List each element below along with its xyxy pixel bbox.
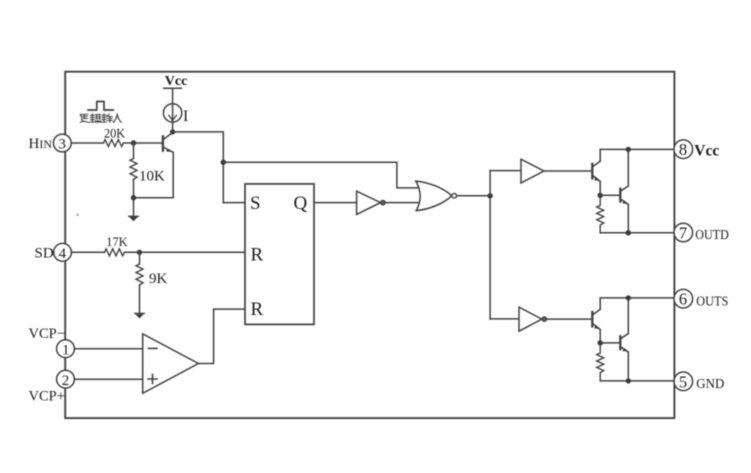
svg-text:OUTS: OUTS [696,294,728,309]
svg-text:HIN: HIN [29,136,53,152]
label Vcc pin8 [694,143,719,160]
svg-text:7: 7 [679,224,687,243]
transistor Q3 (high side darlington) [620,186,628,204]
label HIN [29,136,53,152]
resistor R3 (high side) [597,195,604,233]
wire to top buffer [490,170,521,172]
label 17K [106,235,127,249]
svg-text:GND: GND [696,377,724,392]
current source I1 [163,104,181,122]
wire Q output to inverter [314,202,357,204]
node darlington base junction low [598,340,603,345]
svg-text:R: R [251,299,264,320]
wire current source to collector node [172,122,174,132]
svg-text:5: 5 [679,372,687,391]
wire bottom rail OUTD [600,232,674,234]
inverter U3 [357,191,385,214]
svg-text:8: 8 [679,140,687,159]
resistor 17K [105,249,125,256]
wire pin1 to comparator - input [74,348,142,350]
node distribution junction [487,193,492,198]
wire node to ground [133,198,135,216]
ground (arrow) [129,216,139,221]
svg-text:10K: 10K [139,169,165,185]
label VCP- [29,326,65,342]
wire 20K to base node [124,142,134,144]
label 9K [149,271,168,287]
pin 3 HIN [53,134,71,153]
wire bottom rail GND [600,380,674,382]
svg-text:Vcc: Vcc [165,74,188,89]
NOR gate U4 [416,181,457,211]
op-amp comparator U1 [143,334,199,393]
svg-text:6: 6 [679,290,687,309]
svg-text:4: 4 [59,246,67,262]
svg-text:9K: 9K [149,271,168,287]
wire node to Q5 base [600,342,619,344]
svg-text:Q: Q [294,193,308,214]
wire Q5 collector to rail [627,298,629,334]
resistor R4 (low side) [597,343,604,381]
pin 1 VCP- [57,340,75,358]
wire Q2 collector to top rail [600,149,674,161]
transistor Q1 input NPN [163,133,173,153]
svg-text:VCP+: VCP+ [29,389,65,405]
wire inverter to NOR input [385,202,419,204]
wire pin2 to comparator + input [74,378,142,380]
svg-text:17K: 17K [106,235,127,249]
pin 8 Vcc [674,140,693,159]
wire Q3 collector to rail [627,149,629,186]
wire Q2 emitter to node [599,181,601,195]
buffer U6 (low side, inverting) [519,307,546,331]
node OUTS rail junction [626,295,631,300]
svg-text:Vcc: Vcc [694,143,719,160]
node GND rail junction [626,378,631,383]
pin 2 VCP+ [57,370,75,388]
node SD/9K junction [137,250,142,255]
wire Q4 collector to OUTS rail [600,298,674,309]
pin 7 OUTD [674,223,693,242]
label GND [696,377,724,392]
wire node to transistor base [134,142,163,144]
ground (arrow) [135,313,145,318]
wire 10K to emitter node [133,180,135,198]
svg-text:OUTD: OUTD [695,228,729,243]
wire comparator output to bottom R input [198,309,245,363]
svg-text:S: S [250,193,261,214]
wire pin4 to 17K [71,251,104,253]
wire 9K to ground [139,285,141,313]
label OUTD [695,228,729,243]
svg-text:3: 3 [58,137,66,153]
wire Q4 emitter to node [599,330,601,343]
wire Q5 emitter to GND rail [627,352,629,381]
wire 17K to node [125,251,140,253]
node collector junction [170,129,175,134]
flip-flop U2 (SR latch) [245,184,314,325]
transistor Q2 (high side driver) [592,161,600,181]
wire node down to 10K [133,143,135,159]
wire node to NOR top input [223,162,419,188]
pin 6 OUTS [674,289,693,308]
svg-text:I: I [183,108,188,125]
wire S input [223,202,245,204]
wire distribution vertical [489,171,491,319]
node darlington base junction [598,193,603,198]
Vcc label (top supply) [165,74,188,89]
label SD [35,246,54,262]
IC outer box [65,72,674,418]
stray mark [76,214,78,216]
transistor Q4 (low side driver) [592,309,600,329]
Vcc rail bar [164,87,182,89]
svg-text:R: R [251,245,264,266]
pin 4 SD [54,243,72,261]
wire collector node to S-branch corner [173,132,224,203]
node top rail junction [626,147,631,152]
svg-text:VCP−: VCP− [29,326,65,342]
logic input chinese label 逻辑输入 [80,114,121,123]
wire node down to 9K [139,252,141,264]
label OUTS [696,294,728,309]
resistor 20K [104,140,124,147]
wire emitter down and left to ground node [136,152,173,197]
node base/10K junction [131,140,136,145]
svg-text:1: 1 [62,342,70,358]
buffer U5 (high side) [521,159,544,183]
wire buffer to Q4 base [547,318,592,320]
label 20K [104,126,125,140]
wire buffer to Q2 base [544,170,592,172]
node OUTD rail junction [626,230,631,235]
pin 5 GND [674,372,693,391]
wire to bottom buffer [490,318,519,320]
resistor 9K [136,264,143,285]
wire node to Q3 base [600,194,619,196]
label 10K [139,169,165,185]
wire node to R input [140,251,246,253]
svg-text:20K: 20K [104,126,125,140]
pulse waveform symbol [88,102,113,111]
node emitter/ground junction [131,195,136,200]
wire NOR output to distribution node [457,195,491,197]
svg-text:SD: SD [35,246,54,262]
svg-text:2: 2 [62,373,69,389]
label VCP+ [29,389,65,405]
resistor 10K [130,159,137,180]
label I [183,108,188,125]
wire pin3 to 20K [71,142,103,144]
node NOR feed junction [221,160,226,165]
wire Q3 emitter to bottom rail [627,204,629,233]
transistor Q5 (low side darlington) [620,334,628,352]
wire Vcc bar to current source [172,88,174,104]
